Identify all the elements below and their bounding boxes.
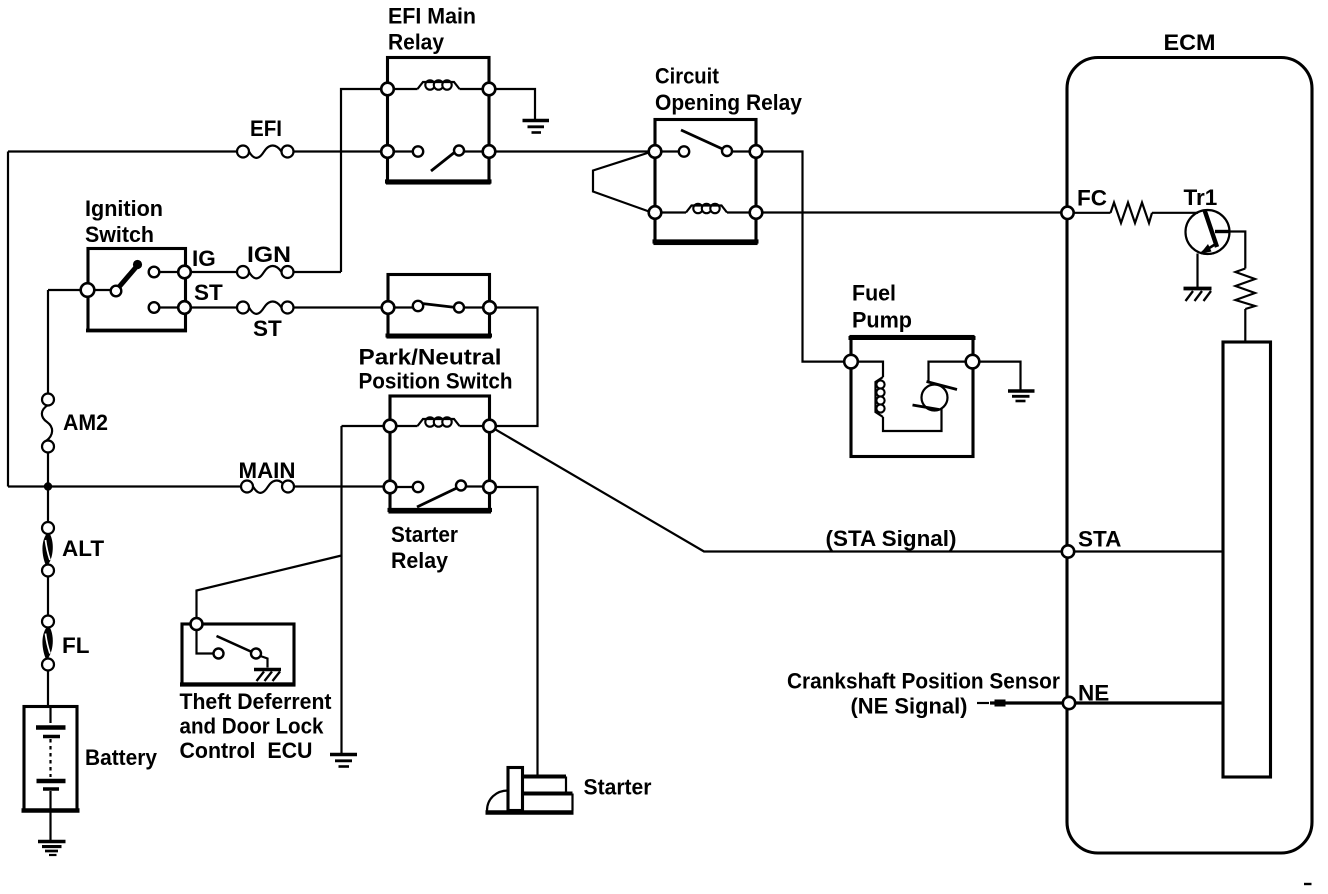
svg-text:AM2: AM2 <box>63 410 108 435</box>
svg-text:Ignition: Ignition <box>85 196 163 221</box>
ECM internal block <box>1223 342 1271 777</box>
fuel pump FP1 <box>844 337 979 457</box>
svg-text:IGN: IGN <box>247 242 291 267</box>
svg-text:Relay: Relay <box>388 30 444 55</box>
svg-text:Pump: Pump <box>852 308 912 333</box>
wire starter relay coil left to ground column <box>342 426 391 753</box>
svg-text:MAIN: MAIN <box>239 458 296 483</box>
wire P/N right link down to starter relay coil <box>490 308 538 427</box>
wire starter relay switch right down to starter <box>490 487 538 777</box>
transistor Q1 Tr1 <box>1186 210 1231 254</box>
wire ignition common left <box>48 289 88 291</box>
svg-text:EFI: EFI <box>250 116 282 141</box>
mark page artifact <box>1304 883 1312 885</box>
svg-text:Starter: Starter <box>391 522 458 547</box>
fuse ALT <box>42 522 54 577</box>
svg-text:Fuel: Fuel <box>852 281 896 306</box>
wire ST to ST fuse <box>185 306 244 308</box>
switch S2 Park/Neutral Position Switch <box>382 275 496 338</box>
wire STA diagonal <box>490 426 1069 552</box>
wire emitter to ground <box>1196 254 1198 288</box>
wire NE line <box>990 701 1223 704</box>
node NE terminal <box>1063 697 1075 709</box>
svg-text:and Door Lock: and Door Lock <box>180 714 324 739</box>
svg-text:Circuit: Circuit <box>655 64 719 89</box>
switch S1 Ignition Switch <box>81 249 191 331</box>
wire EFI relay coil right to ground stem <box>460 89 536 120</box>
node FC terminal <box>1061 207 1073 219</box>
fuse AM2 <box>42 394 54 453</box>
svg-text:ST: ST <box>194 280 223 305</box>
relay K2 Circuit Opening Relay <box>649 120 763 244</box>
svg-text:Control ECU: Control ECU <box>180 738 313 763</box>
wire ST fuse to Park/Neutral switch <box>288 306 389 308</box>
wire NE sensor dash <box>977 702 989 704</box>
svg-text:(STA Signal): (STA Signal) <box>826 526 957 551</box>
wire EFI relay to Circuit Opening Relay <box>489 150 655 152</box>
svg-text:Theft Deferrent: Theft Deferrent <box>180 689 332 714</box>
fuse IGN <box>237 266 294 278</box>
fuse FL <box>42 616 54 671</box>
wire resistor to internal block <box>1244 309 1246 342</box>
svg-text:Crankshaft Position Sensor: Crankshaft Position Sensor <box>787 669 1060 694</box>
svg-text:Opening Relay: Opening Relay <box>655 90 802 115</box>
fuse ST <box>237 302 294 314</box>
ground under battery <box>38 811 66 856</box>
motor M1 Starter <box>486 768 574 813</box>
wire COR coil to FC <box>756 211 1068 213</box>
ECM U1 box <box>1067 58 1312 854</box>
svg-text:ECM: ECM <box>1164 30 1216 55</box>
svg-text:Position Switch: Position Switch <box>359 369 513 394</box>
wire IG to IGN fuse <box>185 271 244 273</box>
svg-text:Switch: Switch <box>85 222 154 247</box>
node NE sensor connector square <box>995 700 1006 707</box>
svg-text:FC: FC <box>1077 186 1107 211</box>
svg-text:FL: FL <box>62 633 90 658</box>
resistor R1 at FC <box>1111 203 1153 224</box>
wire IGN vertical link <box>341 89 418 272</box>
wire collector to resistor <box>1230 232 1246 269</box>
svg-text:NE: NE <box>1078 681 1109 706</box>
relay K1 EFI Main Relay <box>381 58 495 184</box>
resistor R2 collector <box>1236 269 1256 310</box>
battery BT1 <box>22 707 80 811</box>
ground near fuel pump <box>1008 391 1035 401</box>
ground on starter relay coil line <box>330 755 357 767</box>
svg-text:Tr1: Tr1 <box>1184 185 1218 210</box>
svg-text:Battery: Battery <box>85 745 157 770</box>
ground at Tr1 emitter <box>1184 289 1212 302</box>
wire FC inside ECM <box>1068 212 1199 214</box>
wire battery column <box>47 290 49 707</box>
svg-text:(NE Signal): (NE Signal) <box>851 694 968 719</box>
svg-text:Relay: Relay <box>391 548 448 573</box>
wire COR switch out to fuel pump <box>756 152 851 362</box>
svg-text:EFI Main: EFI Main <box>388 4 476 29</box>
fuse MAIN <box>241 481 294 493</box>
relay K3 Starter Relay <box>384 396 496 512</box>
connector wedge at Circuit Opening Relay <box>593 153 649 212</box>
wire STA inside ECM <box>1068 550 1223 552</box>
ECU U2 Theft Deferrent and Door Lock Control ECU <box>180 618 296 685</box>
node STA terminal <box>1062 545 1074 557</box>
wire theft ECU diagonal <box>197 556 342 625</box>
wire IGN fuse right <box>288 271 342 273</box>
svg-text:Park/Neutral: Park/Neutral <box>359 345 502 370</box>
svg-text:STA: STA <box>1078 527 1121 552</box>
node AM2/MAIN junction <box>44 482 52 490</box>
wire fuel pump right to ground <box>973 362 1021 390</box>
svg-text:IG: IG <box>192 246 216 271</box>
fuse EFI <box>237 146 294 158</box>
svg-text:ALT: ALT <box>62 536 104 561</box>
svg-text:Starter: Starter <box>584 775 652 800</box>
ground near EFI Main Relay <box>523 121 550 133</box>
wire left bus vertical <box>7 152 9 487</box>
wire EFI row left <box>8 150 243 152</box>
svg-text:ST: ST <box>253 316 282 341</box>
wire EFI fuse to EFI relay <box>288 150 388 152</box>
wire MAIN row <box>8 485 390 487</box>
